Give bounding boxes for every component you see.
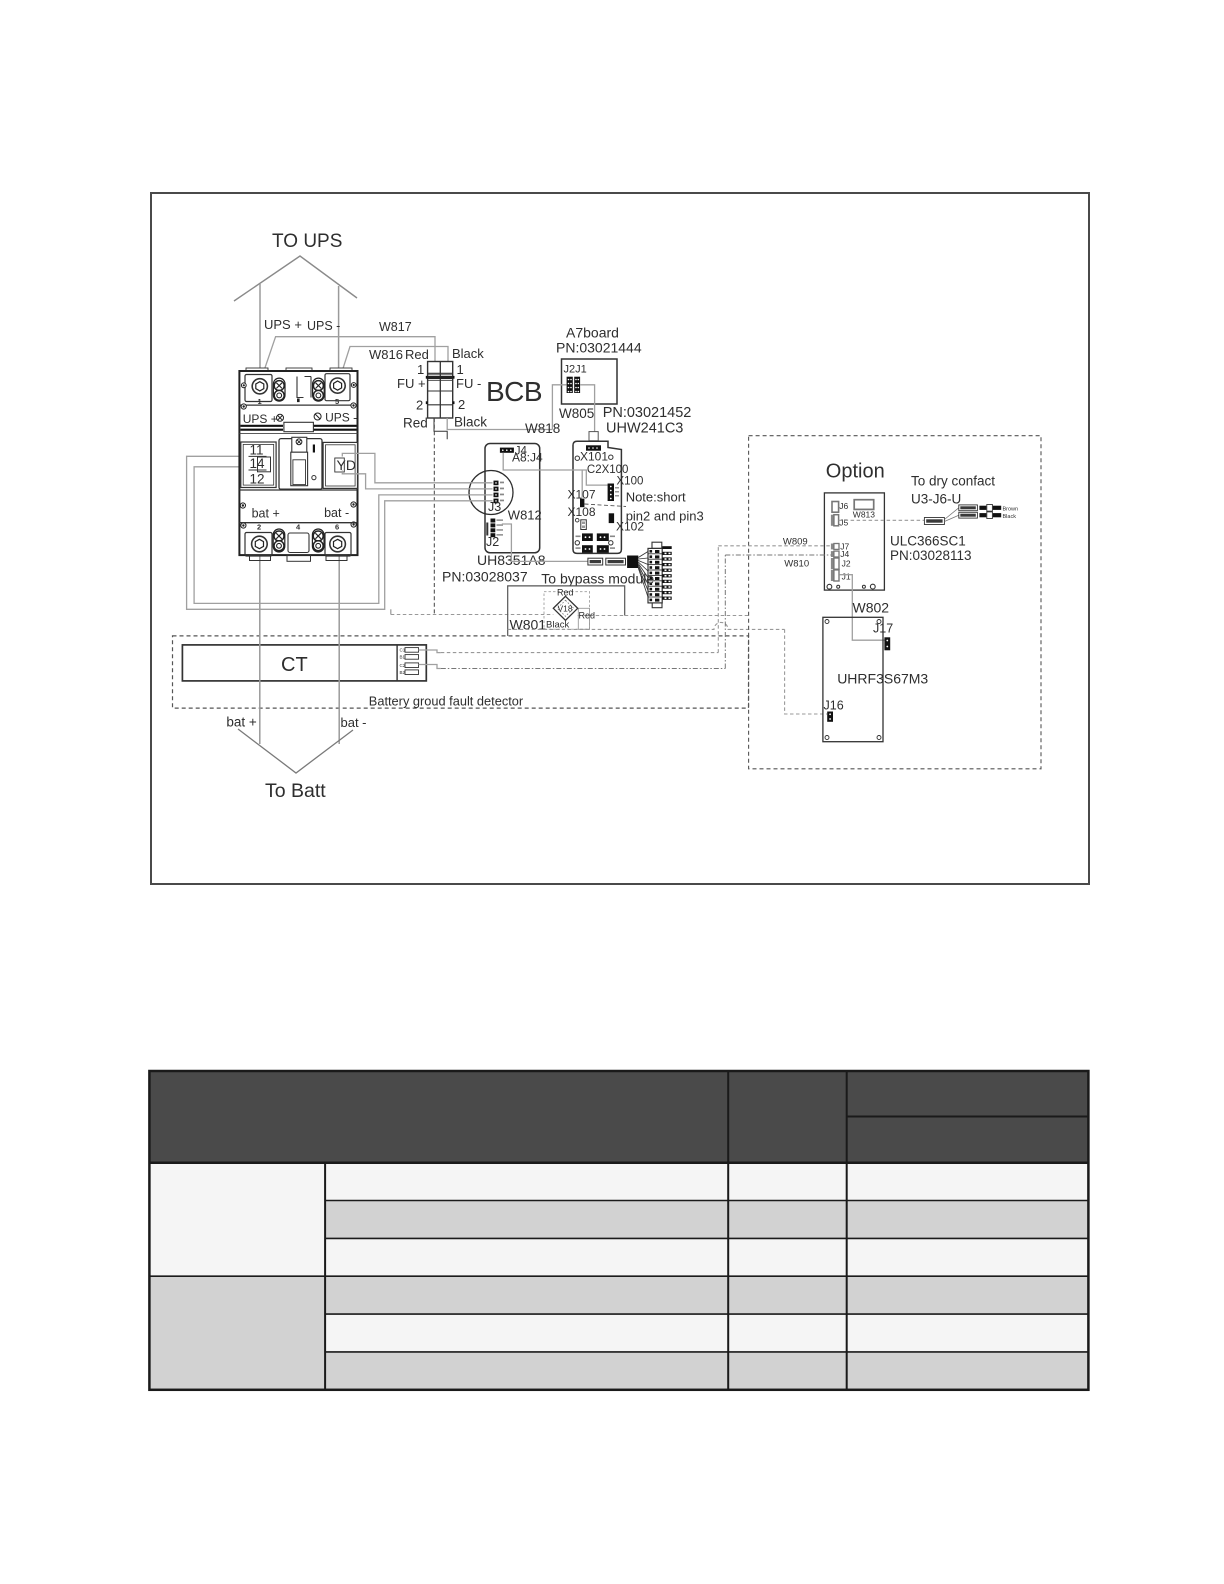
svg-text:X101: X101 bbox=[580, 450, 608, 464]
svg-text:Black: Black bbox=[546, 620, 569, 631]
svg-text:Red: Red bbox=[403, 416, 428, 431]
svg-text:To Batt: To Batt bbox=[265, 780, 326, 802]
svg-text:Note:short: Note:short bbox=[626, 490, 686, 505]
svg-text:J2J1: J2J1 bbox=[564, 364, 587, 376]
svg-text:X102: X102 bbox=[616, 520, 644, 534]
svg-text:1: 1 bbox=[417, 362, 424, 377]
svg-text:FU -: FU - bbox=[456, 376, 481, 391]
svg-text:Red: Red bbox=[579, 611, 596, 621]
svg-text:UHRF3S67M3: UHRF3S67M3 bbox=[837, 671, 928, 687]
svg-text:V18: V18 bbox=[558, 604, 573, 614]
svg-text:A7board: A7board bbox=[566, 325, 619, 341]
svg-text:6: 6 bbox=[335, 523, 339, 532]
svg-text:U3-J6-U: U3-J6-U bbox=[911, 492, 961, 507]
svg-text:2: 2 bbox=[458, 397, 465, 412]
svg-text:UHW241C3: UHW241C3 bbox=[606, 421, 683, 437]
svg-text:W817: W817 bbox=[379, 320, 412, 334]
svg-text:TO UPS: TO UPS bbox=[272, 231, 342, 252]
svg-text:Red: Red bbox=[557, 588, 574, 598]
svg-text:W818: W818 bbox=[525, 421, 560, 436]
svg-text:W805: W805 bbox=[559, 406, 594, 421]
svg-text:UPS -: UPS - bbox=[325, 411, 357, 425]
svg-text:1: 1 bbox=[258, 397, 262, 406]
svg-text:PN:03021444: PN:03021444 bbox=[556, 340, 642, 356]
svg-text:Brown: Brown bbox=[1003, 507, 1019, 513]
svg-text:bat -: bat - bbox=[341, 715, 367, 730]
svg-text:bat +: bat + bbox=[252, 507, 280, 521]
svg-text:FU +: FU + bbox=[397, 376, 426, 391]
svg-text:UPS -: UPS - bbox=[307, 319, 340, 333]
svg-text:2: 2 bbox=[257, 523, 261, 532]
svg-text:To dry confact: To dry confact bbox=[911, 474, 995, 489]
svg-text:W802: W802 bbox=[853, 600, 890, 616]
svg-text:W812: W812 bbox=[508, 508, 542, 523]
svg-text:CT: CT bbox=[281, 654, 308, 676]
svg-text:BCB: BCB bbox=[486, 376, 542, 407]
svg-text:X108: X108 bbox=[568, 505, 596, 519]
svg-text:J6: J6 bbox=[839, 501, 848, 511]
svg-text:To bypass module: To bypass module bbox=[541, 571, 654, 587]
svg-text:C2X100: C2X100 bbox=[587, 464, 629, 476]
svg-text:W810: W810 bbox=[784, 559, 809, 570]
svg-text:2: 2 bbox=[416, 398, 423, 413]
svg-text:X100: X100 bbox=[617, 476, 644, 488]
svg-text:Red: Red bbox=[405, 347, 429, 362]
svg-text:W813: W813 bbox=[853, 509, 875, 519]
svg-text:J5: J5 bbox=[839, 518, 848, 528]
svg-text:Black: Black bbox=[452, 346, 484, 361]
svg-text:Black: Black bbox=[454, 415, 487, 430]
svg-text:Option: Option bbox=[826, 461, 885, 483]
svg-text:PN:03028037: PN:03028037 bbox=[442, 569, 528, 585]
svg-text:J2: J2 bbox=[842, 559, 851, 569]
svg-text:bat +: bat + bbox=[226, 715, 257, 730]
svg-text:bat -: bat - bbox=[324, 506, 349, 520]
svg-text:J3: J3 bbox=[488, 500, 501, 514]
svg-text:YD: YD bbox=[337, 457, 356, 473]
svg-text:J17: J17 bbox=[873, 622, 893, 636]
svg-text:Battery groud fault detector: Battery groud fault detector bbox=[369, 694, 524, 709]
svg-text:J16: J16 bbox=[824, 699, 844, 713]
svg-text:PN:03021452: PN:03021452 bbox=[603, 405, 692, 421]
svg-text:A8:J4: A8:J4 bbox=[512, 451, 543, 465]
svg-text:UPS +: UPS + bbox=[243, 412, 278, 426]
svg-text:5: 5 bbox=[335, 397, 339, 406]
svg-text:Black: Black bbox=[1003, 514, 1017, 520]
svg-text:1: 1 bbox=[457, 362, 464, 377]
svg-text:PN:03028113: PN:03028113 bbox=[890, 548, 972, 563]
svg-text:J2: J2 bbox=[486, 535, 499, 549]
svg-text:UPS +: UPS + bbox=[264, 317, 302, 332]
svg-text:J1: J1 bbox=[842, 572, 851, 582]
svg-text:W801: W801 bbox=[510, 617, 547, 633]
svg-text:ULC366SC1: ULC366SC1 bbox=[890, 534, 966, 549]
svg-text:12: 12 bbox=[250, 472, 265, 487]
svg-text:W816: W816 bbox=[369, 347, 403, 362]
